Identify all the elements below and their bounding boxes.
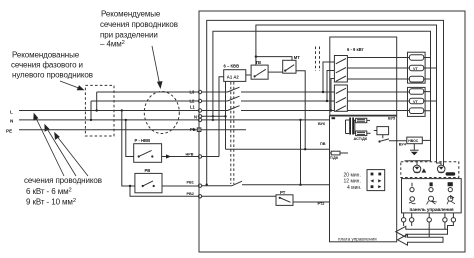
svg-text:N: N bbox=[194, 114, 197, 119]
svg-text:L3: L3 bbox=[190, 90, 196, 95]
svg-text:L2: L2 bbox=[190, 99, 196, 104]
wire PB to PB1 terminal bbox=[162, 180, 232, 187]
svg-text:4 мин.: 4 мин. bbox=[347, 185, 362, 191]
terminal PE square bbox=[190, 127, 201, 132]
svg-text:сечения проводников: сечения проводников bbox=[24, 176, 102, 185]
terminal L2 bbox=[190, 99, 202, 104]
connector block HBOC bbox=[407, 137, 431, 144]
svg-text:VT: VT bbox=[413, 100, 419, 104]
resistor R1 bbox=[356, 118, 370, 122]
annotation text: recommended phase/neutral sections bbox=[11, 51, 93, 80]
N upper wire to board bbox=[202, 116, 330, 120]
heater container 2 bbox=[408, 87, 426, 116]
svg-text:НВОС: НВОС bbox=[408, 139, 418, 143]
svg-text:РВ: РВ bbox=[145, 168, 151, 173]
svg-text:Т/ДК: Т/ДК bbox=[330, 156, 339, 160]
relay2 output wires bbox=[347, 92, 409, 111]
svg-text:МТ: МТ bbox=[294, 55, 300, 60]
wire TB to MT bbox=[268, 71, 283, 73]
phase line L2 with contact KBB bbox=[202, 96, 335, 101]
heater power box 6-9kW bbox=[330, 37, 397, 115]
svg-text:АСТ/ДК: АСТ/ДК bbox=[354, 137, 368, 141]
svg-text:РТ2: РТ2 bbox=[318, 202, 325, 206]
svg-text:– 4мм2: – 4мм2 bbox=[100, 40, 125, 49]
thermal fuse VT 2 bbox=[409, 98, 423, 104]
svg-text:Р - НВВ: Р - НВВ bbox=[135, 138, 151, 143]
svg-text:12 мин.: 12 мин. bbox=[344, 179, 361, 185]
resistor R2 bbox=[356, 131, 371, 136]
svg-text:сечения проводников: сечения проводников bbox=[100, 20, 178, 29]
svg-text:ВУ4: ВУ4 bbox=[399, 142, 407, 146]
dashed rectangle: phase/neutral split bbox=[85, 85, 114, 136]
svg-text:РВ1: РВ1 bbox=[187, 180, 194, 184]
wire PE bbox=[6, 129, 197, 134]
control board box bbox=[330, 116, 397, 242]
block arrow 1 bbox=[396, 226, 448, 237]
panel wires to arrows bbox=[404, 222, 454, 237]
relay1 feeder from L1 bbox=[330, 79, 335, 112]
terminal N (double) bbox=[194, 114, 202, 121]
relay PB bbox=[135, 168, 162, 193]
heating element 3 bbox=[409, 89, 423, 95]
relay1 feeder from L2 bbox=[326, 71, 335, 103]
phase line L3 with contact KBB bbox=[202, 87, 335, 92]
relay P-HBB bbox=[134, 138, 162, 162]
outer cabinet border bbox=[199, 11, 465, 252]
svg-text:панель управления: панель управления bbox=[410, 207, 454, 212]
heating element 2 bbox=[409, 76, 423, 82]
thermal switch TB bbox=[246, 60, 268, 79]
aux contact on PB1 wire bbox=[232, 181, 330, 186]
svg-text:нулевого проводников: нулевого проводников bbox=[12, 70, 93, 79]
temp sensor resistor on aux wire bbox=[320, 142, 348, 160]
thermal fuse VT 1 bbox=[409, 65, 423, 71]
transformer bbox=[346, 118, 356, 135]
contactor aux wire with contact to board bbox=[226, 149, 332, 153]
wire L to PB bbox=[121, 109, 135, 186]
block arrow 2 bbox=[398, 234, 444, 245]
stub to ground wire bbox=[405, 160, 418, 162]
contactor KBB bbox=[224, 64, 246, 82]
wire N bbox=[10, 119, 198, 124]
DIP switch block bbox=[367, 170, 385, 191]
control panel box bbox=[402, 179, 462, 213]
panel terminals bbox=[401, 213, 455, 222]
wire MT to N bbox=[296, 71, 306, 151]
wire L2 bbox=[91, 100, 198, 102]
junction blob on board edge bbox=[332, 117, 336, 119]
terminal L3 bbox=[190, 90, 202, 95]
svg-text:НРВ: НРВ bbox=[186, 153, 194, 157]
svg-text:ПВ: ПВ bbox=[320, 142, 326, 146]
svg-text:ВУ6: ВУ6 bbox=[318, 122, 325, 126]
svg-text:9 кВт - 10 мм2: 9 кВт - 10 мм2 bbox=[26, 198, 76, 207]
svg-text:PE: PE bbox=[6, 129, 12, 134]
arrow to N wire bbox=[44, 124, 76, 176]
relay block 1 bbox=[334, 56, 347, 83]
wire L3 bbox=[97, 91, 199, 93]
annotation text: conductor sections bottom bbox=[24, 176, 102, 206]
heating element 1 bbox=[409, 55, 423, 61]
svg-text:PE: PE bbox=[190, 127, 196, 132]
PE wire right segment bbox=[201, 129, 246, 131]
phase line L1 with contact KBB bbox=[202, 106, 335, 111]
annotation text: recommended split sections bbox=[100, 10, 178, 49]
svg-text:20 мин.: 20 мин. bbox=[344, 172, 361, 178]
dashed circle: split sections bbox=[144, 92, 179, 134]
svg-text:L1: L1 bbox=[190, 105, 196, 110]
wire KBB coil A-pin to N bbox=[224, 81, 226, 149]
thermostat PT bbox=[276, 190, 330, 206]
board output contact bbox=[378, 139, 406, 143]
arrow to L wire bbox=[33, 113, 64, 176]
svg-text:6 – КВВ: 6 – КВВ bbox=[224, 64, 240, 69]
wire TB branch to MT top bbox=[256, 57, 292, 61]
relay1 output wires bbox=[347, 58, 409, 80]
svg-text:L: L bbox=[10, 109, 13, 114]
IC box bbox=[374, 127, 389, 139]
relay1 feeder from L3 bbox=[322, 62, 335, 93]
terminal L1 bbox=[190, 105, 202, 113]
svg-text:ВУ5: ВУ5 bbox=[388, 117, 395, 121]
svg-text:при разделении: при разделении bbox=[100, 31, 158, 40]
wire TB top loop bbox=[256, 25, 441, 165]
thermostat MT bbox=[283, 55, 301, 73]
wire P-HBB to HPB terminal bbox=[162, 153, 219, 159]
heater container 1 bbox=[408, 52, 426, 83]
svg-text:плата управления: плата управления bbox=[338, 237, 377, 242]
arrow to PE wire bbox=[54, 132, 88, 176]
MT linkage dashes bbox=[315, 47, 317, 72]
svg-text:ТВ: ТВ bbox=[256, 60, 262, 65]
arrow to dashed circle bbox=[152, 46, 163, 89]
wire N to P-HBB bbox=[125, 119, 134, 157]
ground bbox=[410, 144, 419, 156]
mechanical linkage dashed KBB bbox=[230, 82, 232, 184]
svg-text:сечения фазового и: сечения фазового и bbox=[11, 61, 83, 70]
svg-text:VT: VT bbox=[413, 67, 419, 71]
svg-text:Рекомендованные: Рекомендованные bbox=[12, 51, 80, 60]
timer labels bbox=[344, 172, 362, 191]
svg-text:6 кВт - 6 мм2: 6 кВт - 6 мм2 bbox=[26, 187, 72, 196]
wire L bbox=[10, 109, 198, 114]
svg-text:Рекомендуемые: Рекомендуемые bbox=[101, 10, 161, 19]
fuse stubs to TB bus bbox=[424, 68, 437, 101]
dashed connection panel bbox=[401, 162, 459, 178]
heating element 4 bbox=[409, 108, 423, 114]
svg-text:А1 А2: А1 А2 bbox=[227, 75, 240, 80]
wire PB2 branch bbox=[129, 185, 276, 198]
svg-text:6 - 9 кВт: 6 - 9 кВт bbox=[347, 47, 364, 52]
heater right stubs to N bus bbox=[424, 58, 431, 111]
relay block 2 bbox=[334, 85, 347, 111]
wire N to PB1 vertical bbox=[299, 119, 301, 185]
svg-text:РВ2: РВ2 bbox=[187, 192, 194, 196]
jumper N to L2 bbox=[90, 101, 92, 121]
wire KBB coil left bbox=[219, 77, 224, 157]
arrow to dashed rectangle bbox=[60, 81, 85, 90]
wire loop rect2: PB1 to connection panel bbox=[206, 20, 444, 186]
wire loop rect3: N bus to heaters bbox=[212, 31, 431, 165]
svg-text:РТ: РТ bbox=[280, 190, 286, 195]
jumper L to L3 bbox=[96, 92, 98, 112]
